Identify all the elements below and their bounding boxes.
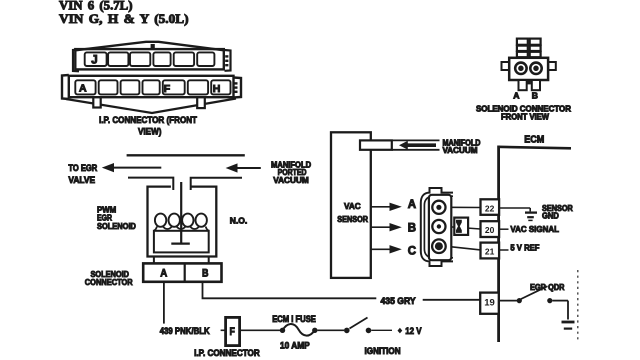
- svg-text:19: 19: [484, 298, 495, 309]
- svg-text:VACUUM: VACUUM: [273, 175, 309, 185]
- svg-text:VAC SIGNAL: VAC SIGNAL: [510, 224, 559, 234]
- svg-text:IGNITION: IGNITION: [365, 346, 401, 356]
- svg-text:C: C: [408, 246, 416, 258]
- svg-text:TO EGR: TO EGR: [68, 163, 97, 173]
- svg-text:A: A: [79, 82, 87, 94]
- svg-text:VIN G, H & Y (5.0L): VIN G, H & Y (5.0L): [59, 12, 189, 26]
- svg-text:VAC: VAC: [344, 201, 361, 211]
- svg-text:ECM I FUSE: ECM I FUSE: [272, 314, 316, 324]
- svg-text:J: J: [91, 54, 97, 66]
- svg-text:22: 22: [485, 204, 495, 214]
- svg-text:SOLENOID: SOLENOID: [97, 221, 136, 231]
- svg-text:A: A: [160, 267, 167, 279]
- svg-text:B: B: [202, 267, 209, 279]
- svg-text:VALVE: VALVE: [68, 175, 95, 185]
- svg-text:10 AMP: 10 AMP: [280, 340, 310, 350]
- svg-text:VIN 6 (5.7L): VIN 6 (5.7L): [59, 0, 133, 13]
- svg-text:SENSOR: SENSOR: [337, 214, 368, 224]
- svg-text:439 PNK/BLK: 439 PNK/BLK: [160, 326, 211, 336]
- svg-text:A: A: [408, 199, 416, 211]
- svg-text:GND: GND: [542, 211, 559, 221]
- svg-text:F: F: [230, 326, 236, 338]
- svg-text:N.O.: N.O.: [230, 215, 248, 225]
- svg-text:H: H: [213, 83, 221, 95]
- svg-text:F: F: [164, 83, 171, 95]
- svg-text:ECM: ECM: [524, 134, 544, 145]
- svg-text:21: 21: [485, 247, 495, 257]
- svg-text:I.P. CONNECTOR: I.P. CONNECTOR: [194, 348, 260, 358]
- svg-text:CONNECTOR: CONNECTOR: [85, 277, 134, 287]
- svg-text:VACUUM: VACUUM: [443, 146, 478, 155]
- svg-text:B: B: [532, 90, 538, 100]
- svg-text:B: B: [408, 223, 416, 235]
- svg-text:VIEW): VIEW): [138, 127, 162, 137]
- svg-text:5 V REF: 5 V REF: [510, 243, 539, 253]
- svg-text:A: A: [513, 90, 519, 100]
- svg-text:20: 20: [485, 225, 495, 235]
- svg-text:FRONT VIEW: FRONT VIEW: [501, 113, 549, 122]
- svg-text:12 V: 12 V: [405, 326, 422, 336]
- svg-text:435 GRY: 435 GRY: [381, 296, 416, 306]
- svg-text:I.P. CONNECTOR (FRONT: I.P. CONNECTOR (FRONT: [99, 115, 197, 125]
